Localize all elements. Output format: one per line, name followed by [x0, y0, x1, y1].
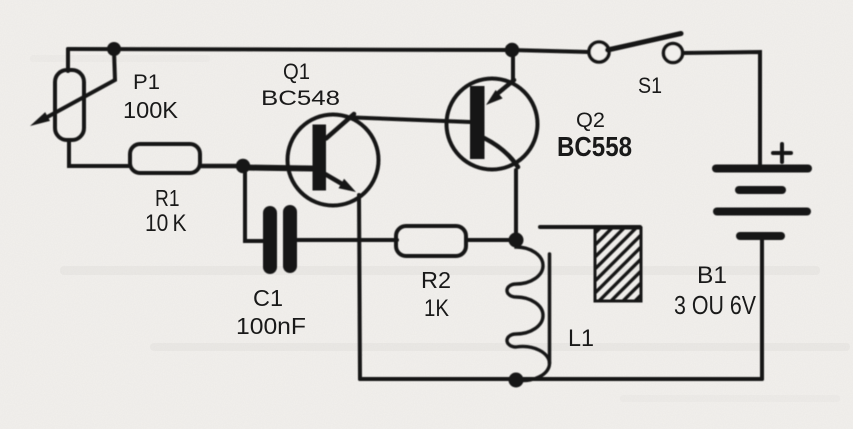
armature bar	[540, 225, 640, 229]
wire bottom rail	[360, 377, 762, 381]
svg-text:10 K: 10 K	[145, 210, 187, 237]
switch S1	[589, 34, 683, 63]
wire node B down to C1	[245, 166, 263, 241]
wire Q2 emitter lead	[511, 50, 515, 81]
svg-text:Q1: Q1	[283, 59, 310, 84]
svg-text:C1: C1	[253, 285, 283, 311]
battery short plate	[739, 186, 782, 194]
transistor Q2 BC558	[447, 79, 538, 170]
switch S1 left contact	[589, 42, 609, 62]
svg-text:1K: 1K	[424, 295, 449, 322]
wire Q2 collector to node C	[514, 170, 518, 240]
battery short plate (negative)	[740, 232, 781, 240]
battery plus polarity mark	[773, 151, 791, 155]
svg-text:100K: 100K	[123, 97, 179, 123]
battery long plate (positive)	[716, 165, 808, 173]
battery long plate	[717, 208, 807, 216]
wire P1 top lead	[66, 49, 70, 71]
potentiometer P1 wiper arrow	[40, 51, 115, 121]
transistor Q1 BC548	[288, 114, 379, 206]
armature hatched block	[595, 228, 641, 301]
resistor R1	[130, 144, 200, 173]
wire battery negative lead to bottom rail	[760, 240, 764, 379]
svg-text:P1: P1	[133, 70, 160, 94]
node C (R2 / L1 / Q2 collector junction)	[509, 233, 524, 248]
svg-text:L1: L1	[568, 325, 594, 352]
wire P1 bottom lead	[69, 140, 130, 166]
inductor L1	[507, 240, 550, 381]
svg-text:S1: S1	[638, 73, 662, 98]
svg-text:3 OU 6V: 3 OU 6V	[674, 290, 757, 320]
node E (L1 bottom / ground rail junction)	[509, 373, 524, 388]
wire R2 to node C	[467, 238, 516, 242]
potentiometer P1 body	[55, 70, 84, 140]
resistor R2	[396, 226, 466, 256]
wire C1 to R2	[297, 238, 397, 242]
L1 core line	[548, 254, 552, 363]
capacitor C1 plates	[263, 213, 277, 267]
wire node B to Q1 base	[243, 168, 312, 169]
battery B1	[716, 144, 808, 379]
wire Q1 emitter down to bottom rail	[359, 195, 360, 379]
svg-text:Q2: Q2	[576, 108, 605, 132]
switch S1 lever	[608, 34, 682, 51]
svg-text:B1: B1	[697, 262, 727, 289]
wire Q1 collector to Q2 base	[354, 118, 470, 123]
switch S1 right contact	[664, 44, 683, 63]
node A (P1 top / wiper junction)	[107, 42, 121, 56]
node B (R1 / C1 / Q1 base junction)	[236, 159, 250, 173]
wire top rail right segment (switch to battery corner)	[683, 52, 760, 166]
svg-text:BC558: BC558	[557, 131, 632, 162]
wire top rail left segment	[68, 49, 589, 52]
svg-text:100nF: 100nF	[236, 313, 306, 339]
svg-text:BC548: BC548	[261, 86, 340, 110]
node D (Q2 emitter / top rail)	[505, 43, 519, 57]
wire R1 to node B	[200, 164, 243, 169]
svg-text:R1: R1	[155, 185, 180, 211]
svg-text:R2: R2	[421, 267, 451, 293]
